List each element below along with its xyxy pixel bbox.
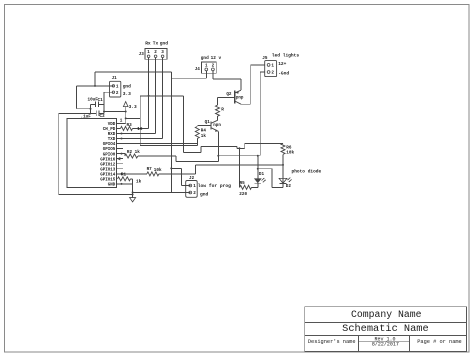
svg-text:Page # or name: Page # or name <box>417 339 462 345</box>
svg-text:D1: D1 <box>259 172 265 177</box>
svg-text:gnd: gnd <box>201 56 209 61</box>
svg-text:J3: J3 <box>139 52 145 57</box>
svg-text:10k: 10k <box>154 168 162 173</box>
svg-text:GPIO14: GPIO14 <box>100 173 116 177</box>
svg-text:Schematic Name: Schematic Name <box>342 323 429 335</box>
svg-text:2: 2 <box>271 71 274 76</box>
svg-text:1: 1 <box>147 50 150 55</box>
svg-text:J4: J4 <box>195 67 201 72</box>
svg-text:Q1: Q1 <box>205 120 211 125</box>
svg-text:TXD: TXD <box>108 138 116 142</box>
svg-text:low for prog: low for prog <box>198 183 231 189</box>
svg-text:led lights: led lights <box>272 52 300 58</box>
svg-text:2: 2 <box>193 191 196 196</box>
svg-text:1: 1 <box>205 64 208 69</box>
svg-text:photo diode: photo diode <box>292 169 322 175</box>
svg-text:2: 2 <box>154 50 157 55</box>
svg-text:CH_PD: CH_PD <box>103 128 116 132</box>
svg-text:Company Name: Company Name <box>351 309 422 320</box>
svg-text:gnd: gnd <box>123 83 131 89</box>
svg-text:1k: 1k <box>201 134 207 139</box>
svg-text:C2: C2 <box>100 114 106 119</box>
svg-text:12+: 12+ <box>278 61 286 67</box>
svg-text:R7: R7 <box>147 167 153 172</box>
svg-text:gnd: gnd <box>200 191 209 197</box>
svg-text:J1: J1 <box>112 76 118 81</box>
svg-text:J5: J5 <box>262 56 268 61</box>
svg-text:220: 220 <box>239 192 247 197</box>
svg-text:VDD: VDD <box>108 123 116 127</box>
svg-text:1K: 1K <box>137 127 143 132</box>
svg-text:J2: J2 <box>189 176 195 181</box>
svg-text:GPIO4: GPIO4 <box>103 143 116 147</box>
svg-text:10k: 10k <box>286 151 294 156</box>
svg-text:1k: 1k <box>136 179 142 184</box>
svg-text:GPIO15: GPIO15 <box>100 178 116 182</box>
svg-text:Tx: Tx <box>153 41 159 47</box>
svg-text:GPIO13: GPIO13 <box>100 168 116 172</box>
svg-text:RXD: RXD <box>108 133 116 137</box>
svg-text:R4: R4 <box>201 128 207 133</box>
svg-text:2: 2 <box>212 64 215 69</box>
svg-text:8/22/2017: 8/22/2017 <box>372 342 399 348</box>
svg-text:1: 1 <box>116 85 119 90</box>
svg-text:GPIO0: GPIO0 <box>103 153 116 157</box>
svg-text:GPIO16: GPIO16 <box>100 158 116 162</box>
svg-text:Designer's name: Designer's name <box>308 339 356 345</box>
svg-text:R5: R5 <box>240 181 246 186</box>
svg-text:C1: C1 <box>98 98 104 103</box>
svg-text:GPIO12: GPIO12 <box>100 163 116 167</box>
svg-text:R2 1k: R2 1k <box>127 150 140 155</box>
svg-text:GND: GND <box>108 184 116 188</box>
svg-text:3.3: 3.3 <box>123 91 131 97</box>
svg-text:1: 1 <box>120 119 123 124</box>
svg-text:Rx: Rx <box>145 41 151 47</box>
svg-text:1: 1 <box>271 64 274 69</box>
svg-text:pnp: pnp <box>236 96 244 100</box>
svg-text:R3: R3 <box>127 123 133 128</box>
svg-text:R1: R1 <box>121 172 127 177</box>
svg-text:3: 3 <box>161 50 164 55</box>
svg-text:GPIO5: GPIO5 <box>103 148 116 152</box>
svg-text:1: 1 <box>193 184 196 189</box>
svg-text:npn: npn <box>213 124 221 128</box>
svg-text:3.3: 3.3 <box>129 104 137 110</box>
svg-text:2: 2 <box>116 91 119 96</box>
svg-text:.1uF: .1uF <box>81 115 92 120</box>
svg-text:D2: D2 <box>286 184 292 189</box>
svg-text:Q2: Q2 <box>226 92 232 97</box>
svg-text:R: R <box>221 107 224 112</box>
svg-text:12 v: 12 v <box>211 56 222 61</box>
svg-text:gnd: gnd <box>160 41 168 47</box>
svg-text:-Gnd: -Gnd <box>278 70 289 76</box>
